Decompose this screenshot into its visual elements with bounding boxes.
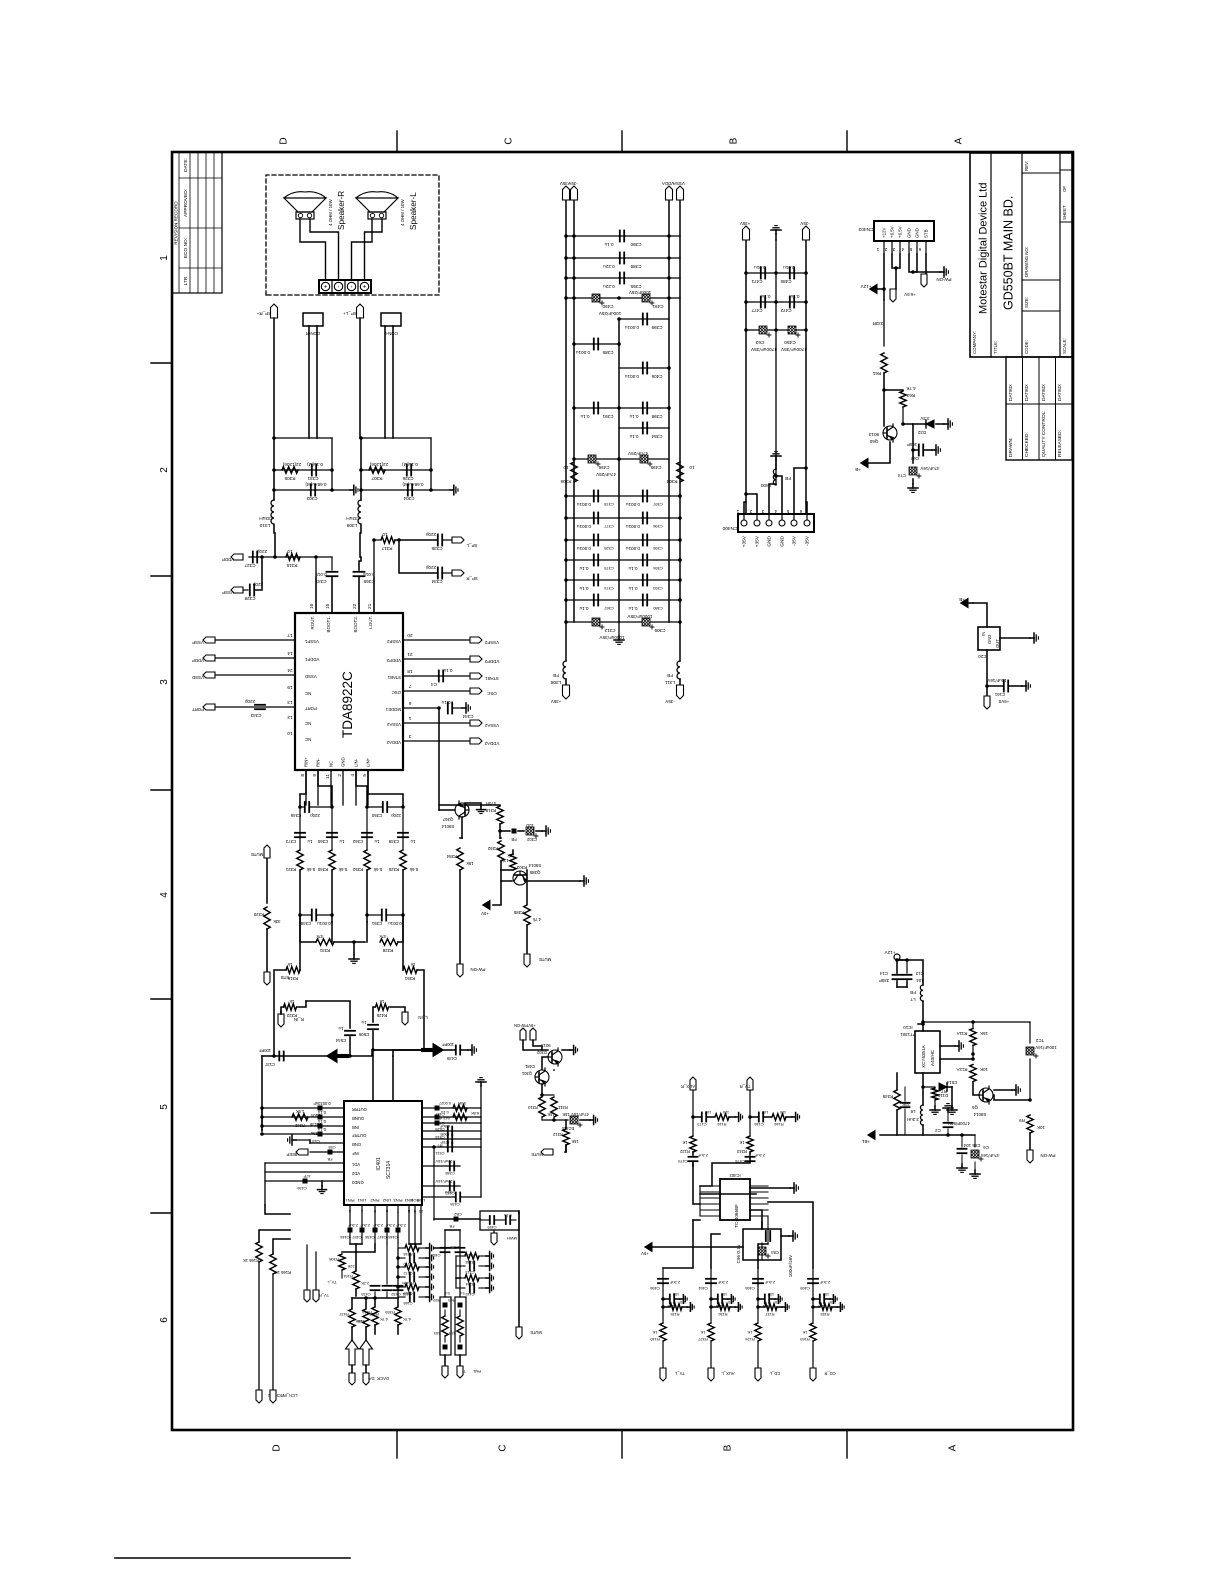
svg-text:INB: INB xyxy=(352,1125,359,1130)
svg-text:33uH: 33uH xyxy=(259,515,271,521)
capacitor CB2 FB xyxy=(454,1217,459,1222)
resistor R305 22(1206) xyxy=(282,467,298,473)
svg-text:SHEET: SHEET xyxy=(1062,205,1067,220)
capacitor C349 1u xyxy=(398,836,408,838)
svg-text:15K: 15K xyxy=(562,1112,570,1117)
svg-text:DACR: DACR xyxy=(377,1376,389,1381)
capacitor C439b 47P xyxy=(303,1179,308,1184)
wire IC20 gnd xyxy=(1000,637,1030,639)
svg-text:PORT: PORT xyxy=(305,706,317,711)
svg-text:R63: R63 xyxy=(906,393,915,398)
wire C505 junction xyxy=(372,1031,374,1050)
port VMUTE xyxy=(264,845,270,858)
wire Q5 e gnd xyxy=(994,1089,1012,1091)
wire long to port A xyxy=(518,1213,520,1327)
svg-text:DATE:: DATE: xyxy=(183,158,189,172)
svg-text:0.1u: 0.1u xyxy=(318,1127,326,1132)
port PP1 xyxy=(565,679,567,685)
svg-text:1: 1 xyxy=(876,247,879,252)
svg-text:0.1u: 0.1u xyxy=(628,586,637,591)
ground caps bank xyxy=(618,622,620,636)
capacitor C351 0.001u xyxy=(365,913,369,917)
svg-text:0.1u: 0.1u xyxy=(628,606,637,611)
resistor R316 1k xyxy=(286,967,300,973)
svg-text:14: 14 xyxy=(287,650,293,656)
svg-text:102: 102 xyxy=(705,1110,712,1115)
port VDDA2 xyxy=(470,738,482,744)
wire C84 block xyxy=(743,1229,781,1260)
resistor R425 1k xyxy=(390,1007,405,1012)
svg-text:R310: R310 xyxy=(527,1105,538,1110)
capacitor C491 100uF/25V xyxy=(642,294,650,302)
svg-text:+12V: +12V xyxy=(884,950,896,955)
wire C137 xyxy=(261,1056,263,1131)
CN403 pin 3 +6.5V xyxy=(899,241,901,254)
svg-text:R328: R328 xyxy=(382,948,393,953)
wire to C334 xyxy=(399,540,437,573)
svg-text:+: + xyxy=(363,284,369,288)
svg-text:C486: C486 xyxy=(780,279,791,284)
caps row C406 xyxy=(619,367,669,369)
svg-text:5.6k: 5.6k xyxy=(306,867,315,872)
svg-text:R9: R9 xyxy=(1019,1118,1025,1123)
wire dcdc out rail xyxy=(922,1125,924,1135)
CN403 pin 1 +12V xyxy=(883,241,885,254)
speaker connector pin 1 xyxy=(318,280,320,293)
title block col line rev xyxy=(1022,172,1060,174)
wire fan LIN+ xyxy=(368,770,403,807)
wire fan RIN- xyxy=(318,770,332,807)
capacitor C448 2.2uF xyxy=(396,1228,401,1233)
svg-text:R308: R308 xyxy=(328,1257,338,1262)
svg-text:1K: 1K xyxy=(700,1330,705,1335)
wire chL zobel row490 xyxy=(361,489,431,491)
resistor R327 1K xyxy=(708,1323,714,1341)
svg-text:1k: 1k xyxy=(410,962,415,967)
svg-text:-35V: -35V xyxy=(805,535,811,546)
svg-text:TV_L: TV_L xyxy=(326,1280,336,1285)
capacitor C360 1u xyxy=(327,836,337,838)
arrow DACL xyxy=(346,1340,359,1365)
svg-text:C351: C351 xyxy=(371,921,382,926)
svg-text:220p: 220p xyxy=(310,813,320,818)
svg-text:47k: 47k xyxy=(316,934,324,939)
svg-text:C495: C495 xyxy=(650,465,661,470)
svg-text:2.2uF: 2.2uF xyxy=(347,1223,358,1228)
capacitor C133 102 xyxy=(663,1298,669,1300)
svg-text:47uF/16V: 47uF/16V xyxy=(571,1112,589,1117)
wire rin chain xyxy=(274,970,286,1056)
port PML xyxy=(459,1355,461,1366)
svg-text:1K: 1K xyxy=(652,1330,657,1335)
capacitor C355 0.22u xyxy=(619,273,621,284)
signoff col xyxy=(1006,403,1072,405)
svg-text:C14: C14 xyxy=(879,971,888,976)
IC401 pin OUTRF wire xyxy=(262,1133,344,1135)
wire chR zobel row470 xyxy=(274,469,332,471)
svg-text:1K: 1K xyxy=(682,1140,687,1145)
junction AUX_L xyxy=(709,1297,713,1301)
svg-text:CB2: CB2 xyxy=(454,1212,462,1217)
svg-text:C514: C514 xyxy=(946,1080,957,1085)
IC402 top pin 3 xyxy=(700,1203,720,1205)
svg-text:L309: L309 xyxy=(346,522,357,528)
capacitor C389 0.22u xyxy=(619,253,621,264)
wire R166 right xyxy=(273,1239,290,1254)
svg-text:VDDP1: VDDP1 xyxy=(304,657,319,662)
junction chR a xyxy=(272,436,276,440)
wire chL row557b xyxy=(332,556,360,558)
title block col line sheet2 xyxy=(1060,169,1072,171)
resistor R146 110 xyxy=(764,1116,771,1118)
capacitor C327 220p xyxy=(252,552,254,563)
svg-text:ROUT.: ROUT. xyxy=(310,616,315,630)
svg-text:110: 110 xyxy=(728,1300,734,1304)
svg-text:FB: FB xyxy=(327,1157,332,1162)
svg-text:C2: C2 xyxy=(935,1128,941,1133)
IC401 pin R? wire xyxy=(422,1138,481,1140)
header J-R xyxy=(303,313,323,326)
wire lob drop xyxy=(409,1243,421,1245)
svg-text:21: 21 xyxy=(367,603,373,609)
svg-text:R136: R136 xyxy=(718,1312,727,1316)
resistor R384 15k xyxy=(460,837,462,839)
svg-text:C172: C172 xyxy=(403,1271,412,1275)
capacitor C131 102 xyxy=(758,1298,764,1300)
port VDDP2 xyxy=(470,656,482,662)
svg-text:GND3: GND3 xyxy=(351,1180,363,1185)
port VSSD xyxy=(203,672,215,678)
svg-text:333R: 333R xyxy=(873,321,884,326)
capacitor C95 0.1u xyxy=(765,1231,767,1241)
wire TV_R xyxy=(749,1090,751,1136)
svg-text:+5V: +5V xyxy=(481,911,489,916)
svg-text:15K: 15K xyxy=(980,1031,988,1036)
svg-text:0.001u: 0.001u xyxy=(626,546,640,551)
transistor Q5 S9014 xyxy=(979,1086,993,1104)
svg-text:100uF/16V: 100uF/16V xyxy=(788,1254,793,1277)
svg-text:110: 110 xyxy=(779,1110,786,1115)
svg-text:C435: C435 xyxy=(450,1202,459,1207)
port VSSP2 xyxy=(470,637,482,643)
wire lpin drop 1 xyxy=(350,1243,362,1245)
IC401 pin PIN3 wire xyxy=(397,1205,399,1244)
svg-text:S9014: S9014 xyxy=(973,1112,986,1117)
wire CN403 stb xyxy=(925,254,927,274)
svg-text:LIN-: LIN- xyxy=(354,758,359,767)
signoff row 1 xyxy=(1022,357,1024,460)
wire channel CD_R xyxy=(812,1285,814,1320)
svg-text:C397: C397 xyxy=(652,502,662,507)
pin ROUT. 16 xyxy=(315,577,317,613)
wire chan2 up xyxy=(711,1234,720,1268)
diode D110 xyxy=(947,1086,952,1088)
capacitor C?? 102 xyxy=(750,1116,758,1118)
resistor R9 10K xyxy=(1029,1100,1031,1115)
svg-text:R304: R304 xyxy=(666,479,677,484)
pin LOUT. 21 xyxy=(373,577,375,613)
resistor R325 5.6k xyxy=(400,850,406,870)
svg-text:PW-ON: PW-ON xyxy=(1040,1153,1055,1158)
capacitor C346 220p xyxy=(300,806,304,808)
pin VSSD 24 wire xyxy=(215,674,295,676)
caps row C367 C380 xyxy=(566,599,680,601)
wire chR gnd stub xyxy=(332,489,350,491)
svg-text:C465: C465 xyxy=(744,1286,754,1291)
pin BOOT2. 22 xyxy=(358,577,360,613)
wire IC401 rail2 left xyxy=(265,1205,290,1214)
CN403 pin 2 +6.5V xyxy=(891,241,893,254)
transistor Q367 S9014 xyxy=(455,801,469,819)
svg-text:A43/HC: A43/HC xyxy=(930,1049,935,1066)
signoff frame xyxy=(1006,357,1072,460)
capacitor C390 0.1u xyxy=(619,231,621,242)
svg-text:100P: 100P xyxy=(907,442,917,447)
svg-text:100PF: 100PF xyxy=(258,1048,271,1053)
title block col line size xyxy=(1022,279,1060,281)
svg-text:1k: 1k xyxy=(379,999,384,1004)
svg-text:13: 13 xyxy=(287,699,293,705)
svg-text:+12V: +12V xyxy=(860,284,872,289)
ladder C168 xyxy=(398,1296,405,1298)
CN400 pin 1 +35V xyxy=(741,520,747,526)
port +35V right xyxy=(743,226,750,240)
IC402 top pin 4 xyxy=(700,1197,720,1199)
title block row line 3 xyxy=(1059,153,1061,357)
resistor R11A 15K xyxy=(972,1022,974,1028)
svg-text:PT1301: PT1301 xyxy=(900,1032,916,1037)
svg-text:C62: C62 xyxy=(910,456,919,461)
svg-text:BOOT1.: BOOT1. xyxy=(326,616,331,633)
resistor R307 22(1206) xyxy=(369,467,385,473)
svg-text:C65 104: C65 104 xyxy=(963,1143,980,1148)
svg-text:10: 10 xyxy=(563,465,569,470)
port SP_OUTL+ xyxy=(357,304,364,318)
svg-text:0.1u: 0.1u xyxy=(579,586,588,591)
svg-text:100PF: 100PF xyxy=(441,1042,454,1047)
svg-text:XCY6351A: XCY6351A xyxy=(921,1044,926,1068)
ladder R349b xyxy=(398,1276,405,1278)
capacitor C609 104 xyxy=(901,1106,910,1108)
svg-text:R425: R425 xyxy=(376,1013,387,1018)
svg-text:+35V: +35V xyxy=(740,221,750,226)
svg-text:R321: R321 xyxy=(285,867,296,872)
svg-text:47uF/16V: 47uF/16V xyxy=(920,466,939,471)
frame tick top xyxy=(151,1212,172,1214)
svg-text:BEEP: BEEP xyxy=(286,1152,297,1157)
resistor R137 110 xyxy=(758,1306,764,1308)
svg-text:R351: R351 xyxy=(404,976,415,981)
svg-text:MWH: MWH xyxy=(507,1236,517,1241)
svg-text:RIN-: RIN- xyxy=(316,758,321,767)
svg-text:IC402: IC402 xyxy=(729,1173,741,1178)
wire +B to IC20 xyxy=(973,603,987,627)
wire pin21 LOUT xyxy=(373,540,375,613)
svg-text:C: C xyxy=(504,137,515,144)
resistor R59 xyxy=(443,1345,448,1350)
svg-text:OUNB: OUNB xyxy=(352,1116,364,1121)
caps bank rail VSSA xyxy=(668,200,670,622)
inductor L8 3.3uH xyxy=(922,1087,924,1105)
network box R63 xyxy=(455,1297,466,1355)
speaker connector pin 4 xyxy=(357,280,359,293)
svg-text:LCH_IN: LCH_IN xyxy=(283,1393,298,1398)
svg-text:R438: R438 xyxy=(368,1312,378,1317)
port TVL mid xyxy=(313,1290,319,1302)
resistor R12A 10K xyxy=(972,1054,974,1064)
svg-text:Q60: Q60 xyxy=(869,439,878,444)
IC402 4066 body xyxy=(720,1179,750,1220)
port caps bank VSSA xyxy=(677,186,684,200)
svg-text:GND: GND xyxy=(767,535,773,546)
port caps bank +35V xyxy=(563,186,570,200)
svg-text:VDDA: VDDA xyxy=(662,181,674,186)
svg-text:R122: R122 xyxy=(679,1149,690,1154)
svg-text:+: + xyxy=(324,284,330,288)
svg-text:C476: C476 xyxy=(735,1159,744,1164)
IC402 bottom pin 12 xyxy=(750,1191,768,1193)
wire chan1 up xyxy=(663,1220,693,1268)
capacitor C14 330p xyxy=(893,978,902,980)
svg-text:-35V: -35V xyxy=(568,181,577,186)
svg-text:-35V: -35V xyxy=(800,221,809,226)
port WFH xyxy=(493,1230,495,1233)
ground C95 xyxy=(781,1235,789,1237)
speaker connector pin 3 xyxy=(344,280,346,293)
svg-text:C343: C343 xyxy=(250,713,261,718)
caps row wire C490 xyxy=(566,297,680,299)
svg-text:C367: C367 xyxy=(603,606,613,611)
svg-text:+6.5V: +6.5V xyxy=(890,226,895,238)
svg-text:24: 24 xyxy=(287,667,293,673)
svg-text:1k: 1k xyxy=(289,999,294,1004)
svg-text:6: 6 xyxy=(159,1317,170,1323)
svg-text:R317: R317 xyxy=(381,546,392,551)
svg-text:R155: R155 xyxy=(820,1312,829,1316)
svg-text:COMPANY:: COMPANY: xyxy=(972,331,977,354)
resistor R312 15k xyxy=(553,1120,555,1128)
capacitor C544 1u xyxy=(345,1034,355,1036)
wire FB CB2 xyxy=(434,1218,480,1220)
port VSSA2 xyxy=(470,720,482,726)
svg-text:102: 102 xyxy=(762,1110,769,1115)
transistor Q60 xyxy=(883,424,897,442)
svg-text:4: 4 xyxy=(350,774,356,777)
svg-text:PIN2: PIN2 xyxy=(370,1198,380,1203)
svg-text:4.7K: 4.7K xyxy=(403,1317,412,1322)
svg-text:R352: R352 xyxy=(352,867,363,872)
svg-text:C373: C373 xyxy=(285,839,296,844)
svg-text:FB: FB xyxy=(785,476,791,481)
inductor L7 FB xyxy=(920,985,923,1001)
svg-text:0.684u(M): 0.684u(M) xyxy=(402,482,423,487)
wire R11A junction xyxy=(972,1045,974,1054)
svg-text:4700P/50V: 4700P/50V xyxy=(948,1121,970,1126)
port +6.5V xyxy=(895,268,897,289)
port PWON2 xyxy=(520,1028,526,1040)
resistor R63 xyxy=(458,1345,463,1350)
svg-text:R12A: R12A xyxy=(956,1067,967,1072)
revision record column line xyxy=(179,227,222,229)
ground Q302 xyxy=(562,1049,570,1051)
svg-text:4700uF/35V: 4700uF/35V xyxy=(750,346,777,352)
capacitor C490 100uF/25V xyxy=(592,294,600,302)
speaker connector CON xyxy=(319,280,371,293)
svg-text:-: - xyxy=(350,286,356,288)
svg-text:2.2uF: 2.2uF xyxy=(819,1280,830,1285)
capacitor C476 2.2uF xyxy=(749,1152,751,1155)
svg-text:REVISION RECORD: REVISION RECORD xyxy=(174,201,179,245)
svg-text:15K: 15K xyxy=(571,1139,579,1144)
svg-text:R137: R137 xyxy=(765,1312,774,1316)
svg-text:+B: +B xyxy=(855,467,861,472)
svg-text:D110: D110 xyxy=(937,1093,948,1098)
wire J-L b xyxy=(392,326,394,438)
net arrow +BL xyxy=(868,1131,875,1140)
svg-text:VDDP2: VDDP2 xyxy=(386,658,401,663)
svg-text:6: 6 xyxy=(799,509,802,514)
svg-text:110: 110 xyxy=(830,1300,836,1304)
frame tick top xyxy=(151,362,172,364)
resistor R317 10 xyxy=(381,537,395,543)
svg-text:C447: C447 xyxy=(377,1235,386,1240)
svg-text:PML: PML xyxy=(472,1369,481,1374)
svg-text:5.6k: 5.6k xyxy=(338,867,347,872)
port R_INF xyxy=(278,1014,284,1027)
capacitor C132 102 xyxy=(711,1298,717,1300)
wire +12V long xyxy=(883,300,885,346)
capacitor C53 0.1u xyxy=(318,1132,323,1137)
port TV_R xyxy=(747,1077,753,1090)
wire Q60 emitter xyxy=(868,442,890,463)
IC401 pin LIN2 wire xyxy=(386,1205,388,1244)
wire SP-R+ xyxy=(300,219,326,280)
svg-text:L311: L311 xyxy=(665,680,675,685)
port +5V0 xyxy=(986,686,988,696)
port VSSP xyxy=(203,637,215,643)
svg-text:C354: C354 xyxy=(651,434,662,439)
svg-text:100uF/25V: 100uF/25V xyxy=(628,290,651,295)
wire IC401 INTR xyxy=(392,1056,394,1101)
ground Q367 xyxy=(465,803,481,806)
ladder2 C213 xyxy=(456,1265,465,1267)
svg-text:2: 2 xyxy=(749,509,752,514)
svg-text:C457: C457 xyxy=(352,1235,361,1240)
wire R317 down xyxy=(395,539,437,541)
svg-text:C380: C380 xyxy=(652,606,662,611)
ground chR xyxy=(350,489,354,491)
speaker connector pin 2 xyxy=(331,280,333,293)
svg-text:MUTE: MUTE xyxy=(251,852,264,857)
svg-text:OSC: OSC xyxy=(487,691,497,696)
IC401 pin LIN3 wire xyxy=(408,1205,410,1244)
arrow DACR xyxy=(360,1340,373,1365)
svg-text:110: 110 xyxy=(722,1110,729,1115)
capacitor C74 47uF/16V xyxy=(912,450,914,463)
svg-text:R165 1K: R165 1K xyxy=(243,1258,260,1263)
svg-text:SCALE:: SCALE: xyxy=(1062,338,1067,354)
resistor R315 10 xyxy=(286,554,300,560)
svg-text:1: 1 xyxy=(408,715,411,721)
wire 5V2 xyxy=(533,1040,542,1050)
wire +5Vfeed xyxy=(652,1246,743,1248)
wire fan LIN- xyxy=(356,770,367,807)
resistor R308 22K xyxy=(342,1244,375,1252)
capacitor C438 2.2uF xyxy=(373,1228,378,1233)
svg-text:C360: C360 xyxy=(317,839,328,844)
svg-text:VDDP: VDDP xyxy=(222,557,234,562)
svg-text:R315: R315 xyxy=(286,563,297,568)
